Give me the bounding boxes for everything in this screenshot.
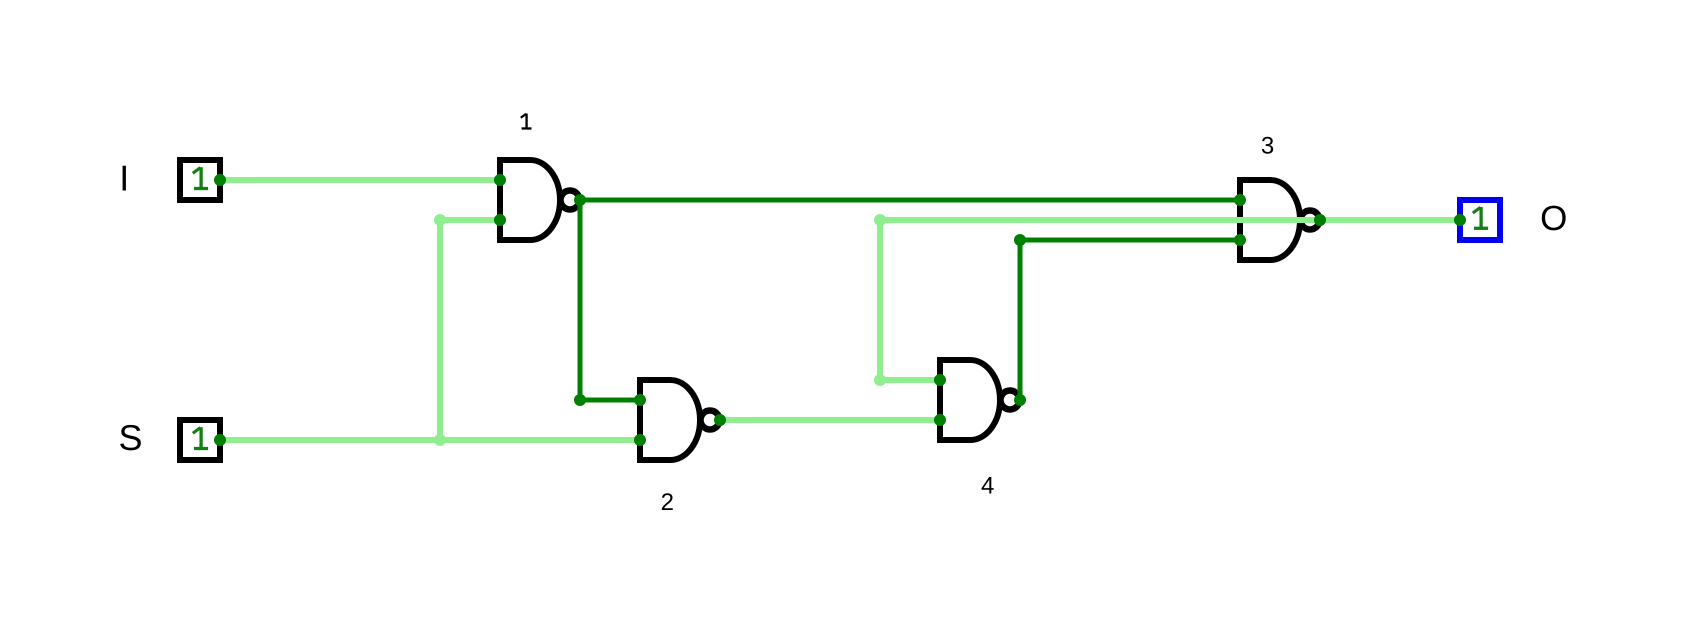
- junction dot light 440,440: [434, 434, 446, 446]
- nand gate U1: [500, 160, 580, 240]
- junction dot dark 580,400: [574, 394, 586, 406]
- junction dot light 440,220: [434, 214, 446, 226]
- input box I: [180, 160, 220, 200]
- wire branch S up: [437, 220, 443, 440]
- pin dot U2 out: [714, 414, 726, 426]
- pin dot U2 in1: [634, 394, 646, 406]
- nand gate U3: [1240, 180, 1320, 260]
- svg-text:O: O: [1540, 199, 1567, 238]
- svg-text:I: I: [119, 158, 129, 199]
- pin dot O in: [1454, 214, 1466, 226]
- input box S: [180, 420, 220, 460]
- junction dot light 880,220: [874, 214, 886, 226]
- output box O: [1460, 200, 1500, 240]
- pin dot U1 in2: [494, 214, 506, 226]
- wire to U2 pin1: [580, 398, 640, 403]
- pin dot U3 in1: [1234, 194, 1246, 206]
- wire U4 out up: [1018, 240, 1023, 400]
- wire U1 out down: [578, 200, 583, 400]
- label 1 of gate U1: [521, 114, 532, 129]
- pin dot U4 in1: [934, 374, 946, 386]
- svg-text:2: 2: [661, 489, 674, 516]
- wire U1 out to U3 pin1: [580, 198, 1240, 203]
- pin dot U2 in2: [634, 434, 646, 446]
- value 1 in box O: [1473, 207, 1488, 228]
- junction dot light 880,380: [874, 374, 886, 386]
- svg-text:3: 3: [1261, 132, 1274, 159]
- wire U2 out to U4 pin2: [720, 417, 940, 423]
- value 1 in box I: [193, 167, 208, 188]
- pin dot U4 in2: [934, 414, 946, 426]
- nand gate U2: [640, 380, 720, 460]
- svg-text:S: S: [118, 417, 142, 458]
- pin dot U1 in1: [494, 174, 506, 186]
- pin dot U4 out: [1014, 394, 1026, 406]
- wire to U1 pin2: [440, 217, 500, 223]
- value 1 in box S: [193, 427, 208, 448]
- wire I to U1 pin1: [220, 177, 500, 183]
- wire to U3 pin2: [1020, 238, 1240, 243]
- svg-text:4: 4: [981, 473, 994, 500]
- pin dot S out: [214, 434, 226, 446]
- nand gate U4: [940, 360, 1020, 440]
- pin dot U3 in2: [1234, 234, 1246, 246]
- wire U3 out feedback and to O: [880, 217, 1460, 223]
- junction dot dark 1020,240: [1014, 234, 1026, 246]
- pin dot U3 out: [1314, 214, 1326, 226]
- wire to U4 pin1: [880, 377, 940, 383]
- wire feedback down: [877, 220, 883, 380]
- wire S to U2 pin2: [220, 437, 640, 443]
- pin dot I out: [214, 174, 226, 186]
- pin dot U1 out: [574, 194, 586, 206]
